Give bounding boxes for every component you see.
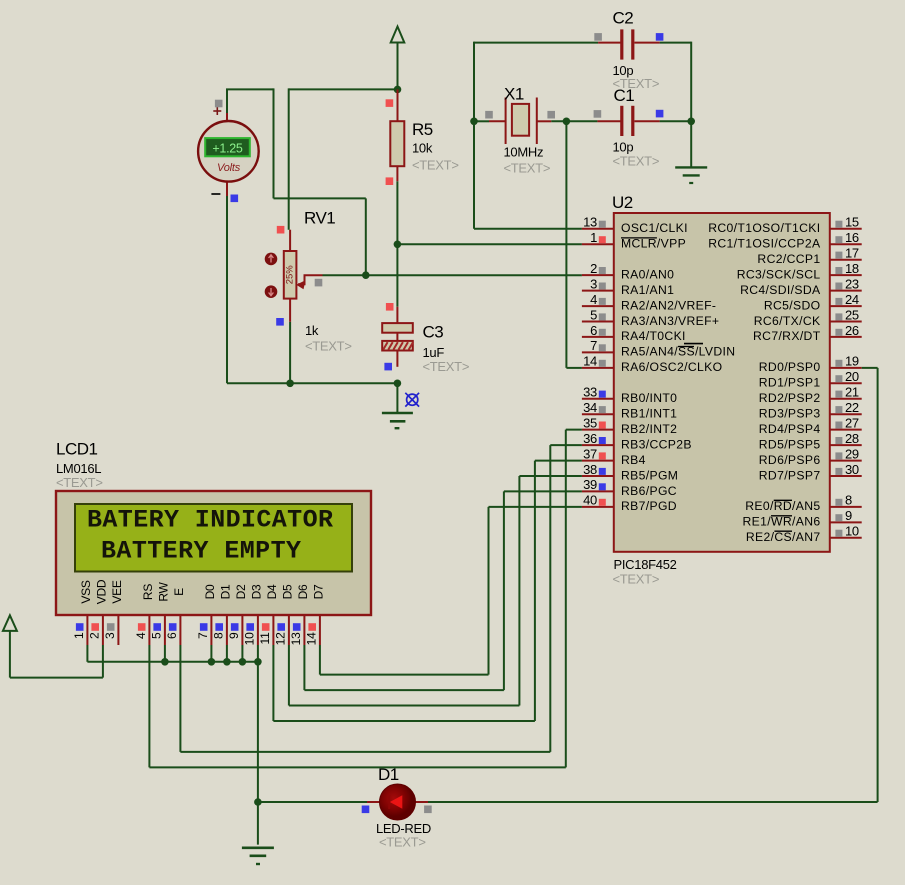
LCD1 pin 6 E bbox=[165, 588, 186, 645]
node MCLR junction bbox=[394, 241, 402, 249]
wire LCD RS to U2 pin 35 bbox=[149, 430, 582, 768]
C1 pin marker right bbox=[656, 110, 664, 118]
svg-text:R5: R5 bbox=[412, 120, 433, 139]
svg-text:<TEXT>: <TEXT> bbox=[423, 359, 470, 374]
svg-text:3: 3 bbox=[103, 632, 117, 639]
svg-text:8: 8 bbox=[845, 493, 852, 508]
svg-text:<TEXT>: <TEXT> bbox=[379, 835, 426, 850]
svg-text:24: 24 bbox=[845, 292, 859, 307]
node VCC/R5 junction bbox=[394, 86, 402, 94]
svg-text:PIC18F452: PIC18F452 bbox=[614, 557, 677, 572]
svg-text:23: 23 bbox=[845, 276, 859, 291]
wire RV1 top lead bbox=[288, 88, 290, 229]
LCD1 pin 13 D6 bbox=[289, 584, 310, 645]
crystal X1 bbox=[489, 98, 551, 145]
svg-text:27: 27 bbox=[845, 415, 859, 430]
svg-text:4: 4 bbox=[590, 292, 597, 307]
wire X1 right to C1 bbox=[551, 120, 597, 122]
U2 CS overline bbox=[774, 530, 792, 532]
D1 pin marker left bbox=[362, 806, 370, 814]
svg-text:D0: D0 bbox=[203, 584, 217, 599]
svg-text:17: 17 bbox=[845, 246, 859, 261]
svg-text:10k: 10k bbox=[412, 141, 433, 156]
U2 pin 24 RC5/SDO (right) bbox=[764, 292, 862, 313]
svg-text:2: 2 bbox=[87, 632, 101, 639]
svg-text:19: 19 bbox=[845, 354, 859, 369]
svg-text:RE1/WR/AN6: RE1/WR/AN6 bbox=[743, 515, 821, 529]
U2 pin 27 RD4/PSP4 (right) bbox=[759, 415, 862, 436]
wire VCC rail to R5 top bbox=[289, 88, 398, 90]
LCD1 pin 5 RW bbox=[149, 581, 170, 645]
svg-text:29: 29 bbox=[845, 446, 859, 461]
ground below C1 bbox=[675, 167, 707, 183]
svg-text:RA2/AN2/VREF-: RA2/AN2/VREF- bbox=[621, 298, 716, 312]
svg-text:RB7/PGD: RB7/PGD bbox=[621, 499, 677, 513]
wire VDD arrow to LCD pin 2 bbox=[10, 645, 103, 678]
U2 pin 22 RD3/PSP3 (right) bbox=[759, 400, 862, 421]
svg-text:36: 36 bbox=[583, 431, 597, 446]
U2 pin 37 RB4 (left) bbox=[582, 446, 646, 467]
wire LCD D6 to U2 pin 39 bbox=[304, 491, 582, 690]
RV1 knob bottom bbox=[265, 285, 278, 298]
svg-text:RC2/CCP1: RC2/CCP1 bbox=[757, 252, 820, 266]
svg-text:D1: D1 bbox=[218, 584, 232, 599]
svg-text:13: 13 bbox=[289, 632, 303, 645]
U2 pin 25 RC6/TX/CK (right) bbox=[754, 307, 862, 328]
svg-text:5: 5 bbox=[590, 307, 597, 322]
svg-text:RC7/RX/DT: RC7/RX/DT bbox=[753, 329, 821, 343]
svg-text:3: 3 bbox=[590, 276, 597, 291]
svg-text:VEE: VEE bbox=[110, 580, 124, 604]
svg-text:RA1/AN1: RA1/AN1 bbox=[621, 283, 674, 297]
U2 RD overline bbox=[774, 499, 792, 501]
U2 pin 7 RA5/AN4/SS/LVDIN (left) bbox=[582, 338, 736, 359]
U2 pin 36 RB3/CCP2B (left) bbox=[582, 431, 692, 452]
U2 pin 8 RE0/RD/AN5 (right) bbox=[745, 493, 861, 514]
U2 pin 23 RC4/SDI/SDA (right) bbox=[740, 276, 862, 297]
svg-text:C1: C1 bbox=[614, 86, 635, 105]
svg-text:9: 9 bbox=[845, 508, 852, 523]
svg-text:5: 5 bbox=[149, 632, 163, 639]
U2 pin 19 RD0/PSP0 (right) bbox=[759, 354, 862, 375]
svg-text:40: 40 bbox=[583, 493, 597, 508]
C1 pin marker left bbox=[594, 110, 602, 118]
svg-text:RC6/TX/CK: RC6/TX/CK bbox=[754, 314, 821, 328]
ground below LCD bbox=[242, 848, 274, 864]
wire LCD pin1 to ground bus bbox=[87, 645, 258, 662]
voltmeter minus sign bbox=[211, 193, 220, 195]
wire RA6 vertical to U2 pin 14 bbox=[566, 121, 582, 368]
svg-text:Volts: Volts bbox=[217, 162, 241, 174]
capacitor C1 bbox=[597, 106, 659, 136]
U2 pin 29 RD6/PSP6 (right) bbox=[759, 446, 862, 467]
U2 pin 17 RC2/CCP1 (right) bbox=[757, 246, 861, 267]
wire C1 right to ground rail bbox=[660, 120, 692, 122]
svg-text:6: 6 bbox=[165, 632, 179, 639]
svg-text:RE0/RD/AN5: RE0/RD/AN5 bbox=[745, 499, 820, 513]
LCD1 pin 7 D0 bbox=[196, 584, 217, 645]
RV1 knob top bbox=[265, 253, 278, 266]
svg-text:RB5/PGM: RB5/PGM bbox=[621, 468, 678, 482]
node X1 left / OSC1 bbox=[470, 118, 478, 126]
svg-text:C3: C3 bbox=[423, 323, 444, 342]
voltmeter (DC volts probe) bbox=[198, 113, 259, 196]
node bus pin5 bbox=[161, 658, 169, 666]
svg-text:26: 26 bbox=[845, 323, 859, 338]
svg-text:10: 10 bbox=[242, 632, 256, 645]
svg-text:33: 33 bbox=[583, 385, 597, 400]
svg-text:14: 14 bbox=[304, 632, 318, 645]
U2 pin 38 RB5/PGM (left) bbox=[582, 462, 678, 483]
wire LCD D4 to U2 pin 37 bbox=[273, 461, 582, 721]
U2 pin 26 RC7/RX/DT (right) bbox=[753, 323, 862, 343]
svg-text:7: 7 bbox=[590, 338, 597, 353]
svg-text:11: 11 bbox=[258, 632, 272, 645]
U2 pin 34 RB1/INT1 (left) bbox=[582, 400, 677, 421]
svg-text:15: 15 bbox=[845, 215, 859, 230]
voltmeter pin marker minus bbox=[231, 195, 239, 203]
svg-text:RC5/SDO: RC5/SDO bbox=[764, 298, 821, 312]
svg-text:X1: X1 bbox=[504, 85, 524, 104]
wire MCLR node to U2 pin 1 bbox=[397, 243, 582, 245]
RV1 pin marker wiper bbox=[315, 279, 323, 287]
svg-text:16: 16 bbox=[845, 230, 859, 245]
svg-text:6: 6 bbox=[590, 323, 597, 338]
U2 pin 2 RA0/AN0 (left) bbox=[582, 261, 674, 282]
svg-text:RA0/AN0: RA0/AN0 bbox=[621, 267, 674, 281]
wire R5 bottom to MCLR node and C3 bbox=[396, 181, 398, 307]
svg-text:D7: D7 bbox=[311, 584, 325, 599]
U2 pin 35 RB2/INT2 (left) bbox=[582, 415, 677, 436]
svg-text:<TEXT>: <TEXT> bbox=[305, 339, 352, 354]
svg-text:13: 13 bbox=[583, 215, 597, 230]
U2 pin 18 RC3/SCK/SCL (right) bbox=[737, 261, 862, 282]
LCD LCD1 body bbox=[56, 491, 371, 615]
LCD1 pin 1 VSS bbox=[72, 580, 93, 645]
svg-text:RD5/PSP5: RD5/PSP5 bbox=[759, 437, 821, 451]
U2 pin 10 RE2/CS/AN7 (right) bbox=[746, 524, 862, 545]
power symbol VCC (top arrow) bbox=[391, 27, 405, 90]
node bus pin7 bbox=[208, 658, 216, 666]
LCD1 pin 10 D3 bbox=[242, 584, 263, 645]
svg-text:25%: 25% bbox=[285, 265, 296, 285]
wire voltmeter minus down bbox=[227, 196, 397, 383]
RV1 wiper arrow bbox=[296, 275, 322, 289]
svg-text:14: 14 bbox=[583, 354, 597, 369]
wire LCD pin10 stub down bbox=[257, 645, 259, 662]
svg-text:OSC1/CLKI: OSC1/CLKI bbox=[621, 221, 688, 235]
svg-text:RB3/CCP2B: RB3/CCP2B bbox=[621, 437, 692, 451]
svg-text:D5: D5 bbox=[280, 584, 294, 599]
wire C2 top rail bbox=[474, 42, 598, 229]
svg-text:2: 2 bbox=[590, 261, 597, 276]
C3 pin marker top bbox=[386, 303, 394, 311]
svg-text:7: 7 bbox=[196, 632, 210, 639]
svg-text:<TEXT>: <TEXT> bbox=[504, 161, 551, 176]
origin marker (blue crosshair) bbox=[405, 393, 419, 407]
svg-text:RS: RS bbox=[141, 584, 155, 600]
svg-text:LCD1: LCD1 bbox=[56, 440, 98, 459]
svg-text:U2: U2 bbox=[612, 193, 633, 212]
X1 pin marker right bbox=[547, 111, 555, 119]
svg-text:8: 8 bbox=[211, 632, 225, 639]
svg-text:RD6/PSP6: RD6/PSP6 bbox=[759, 453, 821, 467]
svg-text:<TEXT>: <TEXT> bbox=[613, 572, 660, 587]
svg-text:C2: C2 bbox=[613, 9, 634, 28]
svg-text:12: 12 bbox=[273, 632, 287, 645]
svg-text:MCLR/VPP: MCLR/VPP bbox=[621, 237, 686, 251]
LCD1 pin 4 RS bbox=[134, 584, 155, 645]
LCD screen bbox=[75, 504, 352, 572]
svg-text:D3: D3 bbox=[249, 584, 263, 599]
wire ground bus down to LED row bbox=[257, 662, 259, 845]
svg-text:34: 34 bbox=[583, 400, 597, 415]
C3 pin marker bottom bbox=[384, 363, 392, 371]
svg-text:<TEXT>: <TEXT> bbox=[613, 154, 660, 169]
svg-text:<TEXT>: <TEXT> bbox=[56, 475, 103, 490]
resistor R5 bbox=[390, 89, 404, 181]
svg-text:D4: D4 bbox=[265, 584, 279, 599]
svg-text:10MHz: 10MHz bbox=[504, 145, 544, 160]
svg-text:E: E bbox=[172, 588, 186, 596]
capacitor C3 (polarized) bbox=[382, 307, 413, 367]
node RV1 bottom junction bbox=[286, 380, 294, 388]
voltmeter plus sign bbox=[213, 107, 221, 115]
svg-text:10p: 10p bbox=[613, 140, 634, 155]
node bus pin10 bbox=[254, 658, 262, 666]
svg-text:35: 35 bbox=[583, 415, 597, 430]
U2 pin 6 RA4/T0CKI (left) bbox=[582, 323, 686, 343]
svg-text:4: 4 bbox=[134, 632, 148, 639]
U2 WR overline bbox=[771, 515, 792, 517]
wire LCD D7 to U2 pin 40 bbox=[320, 507, 582, 675]
wire voltmeter plus to corner bbox=[226, 89, 274, 113]
svg-text:RA6/OSC2/CLKO: RA6/OSC2/CLKO bbox=[621, 360, 722, 374]
U2 MCLR overline bbox=[621, 237, 657, 239]
svg-text:RB4: RB4 bbox=[621, 453, 646, 467]
svg-text:RC4/SDI/SDA: RC4/SDI/SDA bbox=[740, 283, 821, 297]
capacitor C2 bbox=[598, 29, 660, 59]
svg-text:RD0/PSP0: RD0/PSP0 bbox=[759, 360, 821, 374]
U2 pin 28 RD5/PSP5 (right) bbox=[759, 431, 862, 452]
U2 pin 5 RA3/AN3/VREF+ (left) bbox=[582, 307, 719, 328]
X1 pin marker left bbox=[485, 111, 493, 119]
wire ground junction to D1 bbox=[258, 801, 367, 803]
LED D1 bbox=[367, 784, 428, 820]
node X1 right / RA6 bbox=[563, 118, 571, 126]
svg-text:RD1/PSP1: RD1/PSP1 bbox=[759, 376, 821, 390]
R5 pin marker top bbox=[386, 99, 394, 107]
U2 pin 40 RB7/PGD (left) bbox=[582, 493, 677, 514]
svg-text:22: 22 bbox=[845, 400, 859, 415]
wire LCD pin9 stub down bbox=[241, 645, 243, 662]
node ground/LED junction bbox=[254, 798, 262, 806]
wire LCD pin8 stub down bbox=[226, 645, 228, 662]
node C3/ground junction bbox=[394, 380, 402, 388]
wire LCD D5 to U2 pin 38 bbox=[289, 476, 582, 706]
svg-text:RC3/SCK/SCL: RC3/SCK/SCL bbox=[737, 267, 821, 281]
LCD1 pin 14 D7 bbox=[304, 584, 325, 645]
wire corner down to RA0 row bbox=[274, 88, 366, 275]
LCD1 pin 9 D2 bbox=[227, 584, 248, 645]
svg-text:RA4/T0CKI: RA4/T0CKI bbox=[621, 329, 686, 343]
U2 T0CKI trailing line bbox=[684, 343, 703, 345]
svg-text:RD7/PSP7: RD7/PSP7 bbox=[759, 468, 821, 482]
svg-text:1k: 1k bbox=[305, 323, 319, 338]
svg-text:28: 28 bbox=[845, 431, 859, 446]
RV1 pin marker bottom bbox=[276, 318, 284, 326]
node wiper/RA0 junction bbox=[362, 271, 370, 279]
svg-text:VSS: VSS bbox=[79, 580, 93, 604]
U2 pin 1 MCLR/VPP (left) bbox=[582, 230, 686, 251]
svg-text:30: 30 bbox=[845, 462, 859, 477]
LCD1 pin 2 VDD bbox=[87, 579, 108, 645]
C2 pin marker right bbox=[656, 33, 664, 41]
U2 pin 4 RA2/AN2/VREF- (left) bbox=[582, 292, 716, 313]
svg-text:RC1/T1OSI/CCP2A: RC1/T1OSI/CCP2A bbox=[708, 237, 821, 251]
RV1 pin marker top bbox=[277, 226, 285, 234]
svg-text:+1.25: +1.25 bbox=[212, 142, 242, 156]
svg-text:<TEXT>: <TEXT> bbox=[412, 158, 459, 173]
svg-text:21: 21 bbox=[845, 385, 859, 400]
svg-text:RV1: RV1 bbox=[304, 209, 335, 228]
U2 pin 9 RE1/WR/AN6 (right) bbox=[743, 508, 862, 529]
svg-text:RB0/INT0: RB0/INT0 bbox=[621, 391, 677, 405]
U2 pin 16 RC1/T1OSI/CCP2A (right) bbox=[708, 230, 861, 251]
C2 pin marker left bbox=[594, 33, 602, 41]
svg-text:VDD: VDD bbox=[94, 579, 108, 604]
U2 pin 39 RB6/PGC (left) bbox=[582, 477, 677, 498]
R5 pin marker bottom bbox=[386, 177, 394, 185]
svg-text:D1: D1 bbox=[378, 765, 399, 784]
LCD1 pin 12 D5 bbox=[273, 584, 294, 645]
svg-text:BATERY INDICATOR: BATERY INDICATOR bbox=[87, 506, 333, 535]
wire LCD pin5 stub down bbox=[164, 645, 166, 662]
svg-text:25: 25 bbox=[845, 307, 859, 322]
U2 pin 20 RD1/PSP1 (right) bbox=[759, 369, 862, 390]
svg-text:RE2/CS/AN7: RE2/CS/AN7 bbox=[746, 530, 821, 544]
svg-text:RD3/PSP3: RD3/PSP3 bbox=[759, 407, 821, 421]
wire C2 right to ground rail bbox=[660, 42, 692, 168]
U2 pin 15 RC0/T1OSO/T1CKI (right) bbox=[708, 215, 861, 236]
LCD1 pin 8 D1 bbox=[211, 584, 232, 645]
svg-text:1uF: 1uF bbox=[423, 345, 445, 360]
svg-text:RD2/PSP2: RD2/PSP2 bbox=[759, 391, 821, 405]
wire OSC1 to U2 pin 13 bbox=[474, 228, 582, 230]
LCD1 pin 3 VEE bbox=[103, 580, 124, 645]
U2 pin 14 RA6/OSC2/CLKO (left) bbox=[582, 354, 723, 375]
U2 pin 13 OSC1/CLKI (left) bbox=[582, 215, 688, 236]
U2 pin 21 RD2/PSP2 (right) bbox=[759, 385, 862, 406]
svg-text:10: 10 bbox=[845, 524, 859, 539]
U2 pin 3 RA1/AN1 (left) bbox=[582, 276, 674, 297]
power symbol VDD (bottom-left arrow) bbox=[3, 615, 17, 677]
voltmeter pin marker plus bbox=[215, 100, 223, 108]
wire RV1 bottom lead bbox=[289, 322, 291, 384]
svg-text:39: 39 bbox=[583, 477, 597, 492]
potentiometer RV1 bbox=[284, 230, 297, 322]
svg-text:RC0/T1OSO/T1CKI: RC0/T1OSO/T1CKI bbox=[708, 221, 820, 235]
svg-text:RB1/INT1: RB1/INT1 bbox=[621, 407, 677, 421]
ground below C3 bbox=[382, 383, 413, 428]
svg-text:RB2/INT2: RB2/INT2 bbox=[621, 422, 677, 436]
svg-text:RA3/AN3/VREF+: RA3/AN3/VREF+ bbox=[621, 314, 719, 328]
svg-text:D6: D6 bbox=[296, 584, 310, 599]
svg-text:BATTERY EMPTY: BATTERY EMPTY bbox=[101, 537, 301, 566]
LCD1 pin 11 D4 bbox=[258, 584, 279, 645]
wire LCD E to U2 pin 36 bbox=[180, 445, 582, 752]
wire RD0 pin19 to LED net bbox=[428, 368, 878, 802]
svg-text:18: 18 bbox=[845, 261, 859, 276]
D1 pin marker right bbox=[424, 806, 432, 814]
svg-text:1: 1 bbox=[590, 230, 597, 245]
node C1/C2/ground junction bbox=[687, 118, 695, 126]
microcontroller U2 body bbox=[614, 213, 830, 552]
wire LCD pin7 stub down bbox=[210, 645, 212, 662]
svg-text:RB6/PGC: RB6/PGC bbox=[621, 484, 677, 498]
svg-text:20: 20 bbox=[845, 369, 859, 384]
svg-text:38: 38 bbox=[583, 462, 597, 477]
U2 pin 30 RD7/PSP7 (right) bbox=[759, 462, 862, 483]
svg-text:RD4/PSP4: RD4/PSP4 bbox=[759, 422, 821, 436]
U2 pin 33 RB0/INT0 (left) bbox=[582, 385, 677, 406]
svg-text:LM016L: LM016L bbox=[56, 461, 101, 476]
U2 SS overline bbox=[678, 346, 694, 348]
node bus pin8 bbox=[223, 658, 231, 666]
svg-text:9: 9 bbox=[227, 632, 241, 639]
svg-text:D2: D2 bbox=[234, 584, 248, 599]
svg-text:RW: RW bbox=[156, 581, 170, 601]
wire RV1 wiper to U2 pin 2 (RA0) bbox=[323, 274, 582, 276]
wire X1 left lead joint bbox=[474, 120, 489, 122]
svg-text:37: 37 bbox=[583, 446, 597, 461]
svg-text:1: 1 bbox=[72, 632, 86, 639]
node bus pin9 bbox=[239, 658, 247, 666]
